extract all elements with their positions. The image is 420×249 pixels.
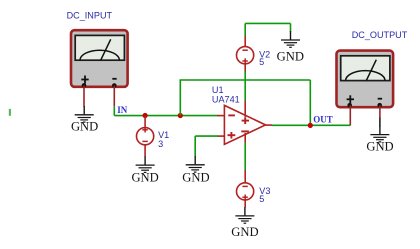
wire: DC_INPUT plus terminal to ground xyxy=(83,85,85,106)
svg-text:DC_INPUT: DC_INPUT xyxy=(67,11,113,21)
junction: feedback on IN net xyxy=(178,113,183,118)
svg-text:GND: GND xyxy=(366,140,393,154)
svg-text:U1: U1 xyxy=(212,85,224,95)
wire: down to ground right of V2 xyxy=(290,23,292,32)
svg-text:GND: GND xyxy=(182,171,209,185)
wire: V- supply vertical (op-amp to V3) xyxy=(244,143,246,171)
source V2 xyxy=(237,35,254,71)
svg-text:GND: GND xyxy=(71,119,98,133)
wire: output horizontal xyxy=(272,124,350,126)
wire: feedback left vertical xyxy=(179,80,181,116)
wire: V2 top horizontal xyxy=(245,22,290,24)
svg-text:IN: IN xyxy=(117,105,128,115)
svg-text:5: 5 xyxy=(259,57,264,67)
source V1 xyxy=(137,116,154,157)
ground (under V1) xyxy=(136,156,155,172)
ground (under DC_INPUT) xyxy=(75,106,94,122)
wire: feedback right vertical xyxy=(309,80,311,125)
junction: V1 on IN net xyxy=(143,113,148,118)
wire: noninverting input horizontal xyxy=(195,135,218,137)
ground (under DC_OUTPUT) xyxy=(370,126,389,142)
wire: V2 top vertical xyxy=(244,23,246,35)
svg-text:OUT: OUT xyxy=(313,114,333,124)
svg-text:GND: GND xyxy=(131,171,158,185)
ground (noninverting input) xyxy=(186,156,205,172)
wire: V+ supply vertical (V2 to op-amp) xyxy=(244,71,246,101)
wire: feedback top horizontal xyxy=(180,79,311,81)
wire: DC_OUTPUT plus terminal down to OUT net xyxy=(349,105,351,125)
wire: DC_INPUT minus terminal down to IN node xyxy=(113,86,115,107)
voltmeter DC_INPUT xyxy=(71,30,128,88)
svg-text:UA741: UA741 xyxy=(212,95,240,105)
svg-text:GND: GND xyxy=(277,49,304,63)
cursor mark xyxy=(9,109,11,116)
svg-text:GND: GND xyxy=(231,225,258,239)
ground (right of V2) xyxy=(281,31,300,47)
svg-text:3: 3 xyxy=(158,139,163,149)
svg-text:DC_OUTPUT: DC_OUTPUT xyxy=(352,30,408,40)
voltmeter DC_OUTPUT xyxy=(337,51,394,108)
op-amp U1 xyxy=(217,100,272,144)
wire: IN net horizontal xyxy=(114,115,218,117)
svg-text:5: 5 xyxy=(259,194,264,204)
source V3 xyxy=(237,170,254,207)
wire: DC_OUTPUT minus terminal down to ground xyxy=(379,105,381,117)
junction: OUT node xyxy=(308,123,313,128)
wire: noninverting input vertical to ground xyxy=(194,136,196,156)
ground (under V3) xyxy=(235,207,254,223)
